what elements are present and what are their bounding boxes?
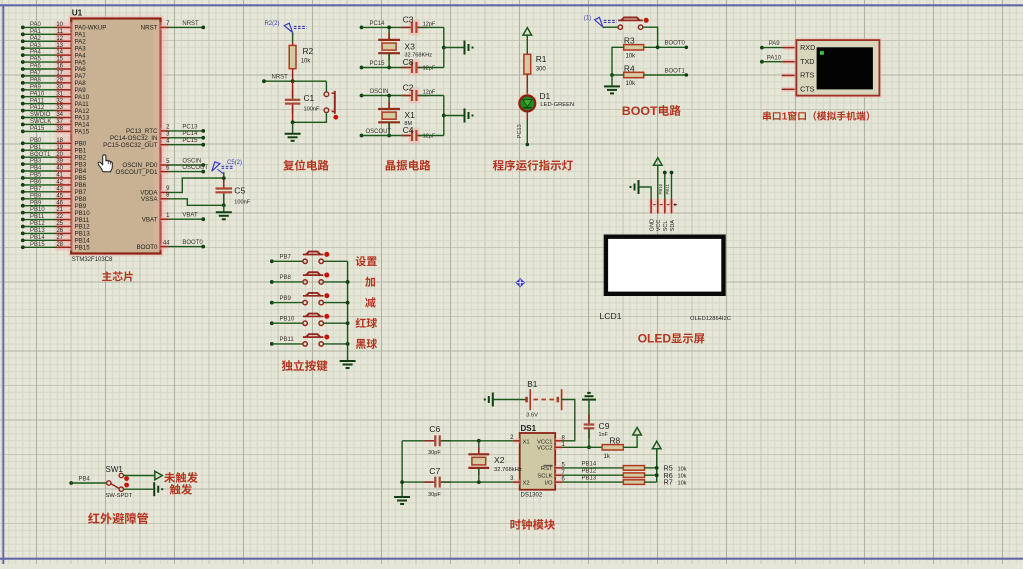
button PB7 [270, 252, 348, 264]
svg-text:OSCOUT: OSCOUT [182, 165, 208, 171]
power arrow [523, 28, 532, 55]
resistor R3 10k [624, 36, 644, 60]
svg-text:PC14: PC14 [182, 131, 198, 137]
pin 15 PA5 left wire [21, 57, 86, 67]
svg-text:PB8: PB8 [280, 275, 292, 281]
virtual terminal [782, 40, 880, 96]
svg-text:18: 18 [56, 138, 63, 144]
wire R2 bottom to NRST node [292, 69, 294, 82]
svg-text:(1): (1) [584, 15, 591, 21]
node OSCIN [360, 89, 410, 98]
svg-text:SW-SPDT: SW-SPDT [106, 493, 133, 499]
svg-text:NRST: NRST [182, 21, 199, 27]
svg-text:NRST: NRST [141, 25, 158, 32]
svg-text:PB9: PB9 [280, 296, 292, 302]
svg-text:PB12: PB12 [582, 469, 597, 475]
svg-text:300: 300 [536, 66, 547, 72]
svg-text:27: 27 [56, 235, 63, 241]
svg-text:PB7: PB7 [30, 186, 42, 192]
svg-text:SW1: SW1 [106, 465, 124, 474]
svg-text:BOOT0: BOOT0 [137, 244, 159, 251]
svg-text:PA9: PA9 [769, 41, 781, 47]
LED D1 LED-GREEN [519, 91, 574, 111]
svg-text:10k: 10k [626, 53, 637, 59]
svg-text:26: 26 [56, 228, 63, 234]
pin 31 PA10 left wire [21, 91, 90, 101]
marker (1) [584, 15, 617, 27]
pin 28 PB15 left wire [21, 242, 90, 252]
svg-text:10k: 10k [678, 466, 687, 472]
svg-text:RST: RST [541, 466, 553, 472]
svg-text:14: 14 [56, 50, 63, 56]
resistor R6 10k [623, 471, 686, 480]
pin 2 PC13 [126, 124, 205, 135]
svg-text:100nF: 100nF [304, 107, 320, 113]
svg-text:PA2: PA2 [30, 36, 42, 42]
svg-text:X3: X3 [404, 42, 415, 52]
svg-text:30pF: 30pF [428, 450, 441, 456]
svg-text:PB1: PB1 [30, 145, 42, 151]
label 时钟模块 [510, 519, 555, 530]
svg-text:C5: C5 [234, 185, 245, 195]
svg-text:RXD: RXD [800, 43, 815, 52]
ground for X3 caps [442, 27, 473, 67]
svg-text:1k: 1k [604, 454, 611, 460]
wire R4 right BOOT1 [644, 68, 688, 76]
svg-text:X2: X2 [523, 480, 530, 486]
svg-text:VSSA: VSSA [141, 196, 158, 203]
svg-text:PB6: PB6 [30, 179, 42, 185]
svg-text:PB3: PB3 [30, 159, 42, 165]
svg-text:PA15: PA15 [75, 129, 90, 136]
svg-text:PB10: PB10 [658, 183, 663, 194]
capacitor C2 12pF [401, 82, 444, 103]
ground for X1 caps [442, 96, 473, 136]
svg-text:PB7: PB7 [280, 255, 292, 261]
svg-text:PB4: PB4 [79, 476, 91, 482]
pin 4 PC15 [103, 138, 205, 149]
svg-text:X2: X2 [494, 455, 505, 465]
svg-text:SWCLK: SWCLK [30, 119, 51, 125]
svg-text:C4: C4 [403, 125, 414, 135]
wire SW1 bottom throw to ground [124, 482, 163, 496]
pin 8 VSSA [141, 193, 224, 206]
svg-text:16: 16 [56, 64, 63, 70]
label 减 [365, 297, 376, 307]
label 红外避障管 [88, 513, 148, 525]
mouse cursor [98, 155, 112, 172]
wire to BOOT button [603, 26, 619, 28]
pin 25 PB12 left wire [21, 221, 90, 231]
svg-text:PA8: PA8 [30, 77, 42, 83]
svg-text:BOOT0: BOOT0 [665, 41, 686, 47]
svg-text:NRST: NRST [272, 75, 289, 81]
button PB11 [270, 334, 348, 346]
pin 44 BOOT0 [137, 240, 206, 251]
svg-text:BOOT: BOOT [622, 104, 658, 118]
pin 46 PB9 left wire [21, 200, 87, 210]
svg-text:C6: C6 [429, 424, 440, 434]
wire PB14 [562, 461, 623, 468]
pin 29 PA8 left wire [21, 77, 86, 87]
svg-text:19: 19 [56, 145, 63, 151]
svg-text:C3: C3 [403, 14, 414, 24]
power arrow pullups [652, 441, 661, 449]
svg-text:OSCOUT_PD1: OSCOUT_PD1 [116, 169, 159, 176]
pin 38 PA15 left wire [21, 126, 90, 136]
svg-text:40: 40 [56, 166, 63, 172]
svg-text:D1: D1 [540, 91, 551, 101]
svg-text:DS1: DS1 [521, 424, 537, 433]
svg-text:CTS: CTS [800, 85, 815, 94]
svg-text:SCLK: SCLK [537, 474, 552, 480]
svg-text:PA10: PA10 [30, 91, 45, 97]
pin 20 BOOT1 left wire [21, 152, 87, 162]
svg-text:PB13: PB13 [30, 228, 45, 234]
svg-text:R7: R7 [664, 478, 673, 487]
ground OLED [631, 180, 652, 205]
svg-text:VBAT: VBAT [182, 213, 198, 219]
svg-text:PC13: PC13 [182, 124, 198, 130]
svg-text:PB5: PB5 [30, 173, 42, 179]
svg-text:BOOT1: BOOT1 [30, 152, 51, 158]
svg-text:SWDIO: SWDIO [30, 112, 51, 118]
wire buttons common [346, 261, 350, 361]
pin 22 PB11 left wire [21, 214, 90, 224]
svg-text:PC15: PC15 [182, 138, 198, 144]
crystal X1 8M [378, 94, 415, 138]
svg-text:1: 1 [782, 112, 788, 123]
svg-text:GND: GND [649, 219, 655, 231]
label 加 [365, 277, 375, 287]
svg-text:PC14: PC14 [370, 21, 386, 27]
ground buttons [340, 361, 356, 368]
svg-text:41: 41 [56, 173, 63, 179]
svg-text:VCC1: VCC1 [537, 440, 552, 446]
wire button bottom to C1 [293, 113, 327, 123]
label 晶振电路 [386, 160, 431, 171]
pin 7 NRST right [141, 21, 205, 32]
origin marker [515, 278, 525, 288]
pin 30 PA9 left wire [21, 84, 86, 94]
svg-text:PB15: PB15 [30, 242, 45, 248]
svg-text:R2(2): R2(2) [265, 21, 280, 27]
svg-text:PB11: PB11 [280, 337, 295, 343]
wire to reset button [325, 81, 327, 92]
svg-text:STM32F103C8: STM32F103C8 [72, 257, 113, 263]
pin 41 PB5 left wire [21, 173, 87, 183]
svg-text:PB11: PB11 [30, 214, 45, 220]
pin 1 VBAT [142, 213, 205, 224]
svg-text:32: 32 [56, 98, 63, 104]
svg-text:PA5: PA5 [30, 57, 42, 63]
capacitor C6 30pF [402, 424, 513, 456]
OLED pins [649, 199, 677, 232]
svg-text:PA12: PA12 [30, 105, 45, 111]
svg-text:PB14: PB14 [582, 461, 597, 467]
switch SW1 SW-SPDT [106, 465, 133, 499]
svg-text:PB12: PB12 [30, 221, 45, 227]
svg-text:22: 22 [56, 214, 63, 220]
button PB8 [270, 272, 348, 284]
ground clock left [394, 497, 410, 504]
svg-text:OSCOUT: OSCOUT [366, 129, 392, 135]
wire SDA [670, 171, 674, 205]
node PA10 [760, 55, 784, 63]
svg-text:R3: R3 [624, 36, 635, 46]
pin 5 OSCIN [122, 158, 205, 169]
svg-text:44: 44 [163, 240, 170, 246]
svg-text:PA11: PA11 [30, 98, 44, 104]
wire SW1 top throw [124, 471, 163, 480]
svg-text:43: 43 [56, 186, 63, 192]
crystal X3 32.768KHz [378, 26, 432, 70]
battery B1 3.6V [526, 380, 561, 418]
pin 45 PB8 left wire [21, 193, 87, 203]
svg-text:15: 15 [56, 57, 63, 63]
pin 12 PA2 left wire [21, 36, 86, 46]
svg-text:C8: C8 [403, 57, 414, 67]
pin 21 PB10 left wire [21, 207, 90, 217]
svg-text:12pF: 12pF [423, 90, 436, 96]
svg-text:VBAT: VBAT [142, 216, 158, 223]
svg-text:11: 11 [57, 29, 64, 35]
svg-text:29: 29 [56, 77, 63, 83]
svg-text:X1: X1 [404, 110, 415, 120]
svg-text:32.768kHz: 32.768kHz [494, 467, 522, 473]
capacitor C1 100nF [285, 81, 320, 124]
svg-text:38: 38 [56, 126, 63, 132]
capacitor C7 30pF [402, 466, 513, 498]
marker R2(2) [265, 21, 307, 32]
svg-text:C1: C1 [304, 93, 315, 103]
svg-text:PA0: PA0 [30, 22, 42, 28]
BOOT button [618, 18, 649, 30]
node OSCOUT [360, 129, 410, 138]
svg-text:17: 17 [56, 71, 63, 77]
label 串口1窗口（模拟手机端） [763, 111, 869, 122]
svg-text:PB4: PB4 [30, 166, 42, 172]
svg-text:PB10: PB10 [280, 316, 295, 322]
svg-text:10k: 10k [678, 474, 687, 480]
svg-text:B1: B1 [527, 380, 537, 389]
svg-text:100nF: 100nF [234, 199, 250, 205]
svg-text:PB13: PB13 [582, 476, 597, 482]
svg-text:PA4: PA4 [30, 50, 42, 56]
ground battery left [485, 393, 526, 407]
svg-text:PB9: PB9 [30, 200, 42, 206]
svg-text:PA15: PA15 [30, 126, 45, 132]
svg-text:PA3: PA3 [30, 43, 42, 49]
pin 27 PB14 left wire [21, 235, 90, 245]
svg-text:BOOT0: BOOT0 [182, 240, 203, 246]
svg-text:OLED: OLED [638, 332, 672, 346]
svg-text:10: 10 [56, 22, 63, 28]
svg-text:3.6V: 3.6V [526, 412, 538, 418]
svg-text:R1: R1 [536, 54, 547, 64]
svg-text:PC15-OSC32_OUT: PC15-OSC32_OUT [103, 142, 158, 149]
svg-text:33: 33 [56, 105, 63, 111]
label OLED显示屏 [638, 332, 705, 346]
LCD1 OLED display body [600, 237, 731, 322]
wire VCC2 to R8 [562, 446, 602, 448]
node PC14 [360, 21, 410, 30]
button PB9 [270, 293, 348, 305]
svg-text:42: 42 [56, 179, 63, 185]
capacitor C3 12pF [401, 14, 444, 35]
label 黑球 [356, 339, 377, 349]
capacitor C9 1nF [584, 414, 610, 449]
wire battery to VCC1 [562, 400, 575, 441]
svg-text:13: 13 [56, 43, 63, 49]
svg-text:PC13: PC13 [517, 124, 523, 138]
resistor R8 1k [602, 436, 623, 460]
svg-text:12: 12 [56, 36, 63, 42]
svg-text:BOOT1: BOOT1 [665, 68, 686, 74]
svg-text:PB15: PB15 [75, 244, 91, 251]
svg-text:TXD: TXD [800, 57, 814, 66]
pin 14 PA4 left wire [21, 50, 86, 60]
svg-text:C2: C2 [403, 82, 414, 92]
wire C6 C7 left vertical [400, 441, 404, 497]
wire pullup common [655, 449, 659, 482]
button PB10 [270, 314, 348, 326]
pin 18 PB0 left wire [21, 138, 87, 148]
reset button [324, 91, 338, 120]
pin 6 OSCOUT [116, 165, 209, 176]
svg-text:PB0: PB0 [30, 138, 42, 144]
pin 16 PA6 left wire [21, 64, 86, 74]
pin 43 PB7 left wire [21, 186, 87, 196]
node PC15 [360, 61, 410, 70]
pin 33 PA12 left wire [21, 105, 90, 115]
chip U1 STM32F103C8 [55, 8, 167, 262]
ground under C1 [285, 122, 301, 141]
svg-text:12pF: 12pF [423, 66, 436, 72]
svg-text:I/O: I/O [545, 480, 553, 486]
svg-text:39: 39 [56, 159, 63, 165]
svg-text:PA9: PA9 [30, 84, 42, 90]
svg-text:28: 28 [56, 242, 63, 248]
pin 39 PB3 left wire [21, 159, 87, 169]
svg-text:PA10: PA10 [767, 55, 782, 61]
svg-text:LCD1: LCD1 [600, 311, 622, 321]
pin 13 PA3 left wire [21, 43, 86, 53]
ground BOOT [604, 75, 620, 93]
pin 9 VDDA [140, 178, 224, 197]
label 红球 [356, 318, 378, 328]
pin 17 PA7 left wire [21, 71, 86, 81]
crystal X2 32.768kHz [468, 441, 521, 482]
svg-text:20: 20 [56, 152, 63, 158]
svg-text:VCC: VCC [656, 220, 662, 232]
pin 34 SWDIO left wire [21, 112, 90, 122]
svg-text:37: 37 [56, 119, 63, 125]
label 触发 [170, 484, 192, 495]
resistor R7 10k [623, 478, 686, 487]
svg-text:45: 45 [56, 193, 63, 199]
wire R3 right BOOT0 [644, 41, 688, 49]
power arrow OLED VCC [654, 158, 663, 205]
svg-text:10k: 10k [626, 81, 637, 87]
svg-text:DS1302: DS1302 [521, 493, 543, 499]
pin 37 SWCLK left wire [21, 119, 90, 129]
node PB4 [69, 476, 106, 485]
svg-text:OLED12864I2C: OLED12864I2C [690, 316, 731, 322]
svg-text:PA7: PA7 [30, 71, 42, 77]
svg-text:R2: R2 [303, 46, 314, 56]
svg-text:1nF: 1nF [599, 432, 609, 438]
svg-text:12pF: 12pF [423, 134, 436, 140]
svg-text:VCC2: VCC2 [537, 446, 552, 452]
chip DS1 DS1302 [510, 424, 565, 499]
svg-text:PA6: PA6 [30, 64, 42, 70]
marker C5(2) [212, 160, 242, 174]
node PA9 [760, 41, 784, 49]
pin 26 PB13 left wire [21, 228, 90, 238]
svg-text:OSCIN: OSCIN [370, 89, 389, 95]
svg-text:SDA: SDA [670, 220, 676, 232]
label BOOT电路 [622, 104, 681, 118]
svg-text:R8: R8 [610, 436, 621, 446]
pin 42 PB6 left wire [21, 179, 87, 189]
svg-text:PA1: PA1 [30, 29, 42, 35]
svg-text:30: 30 [56, 84, 63, 90]
svg-text:34: 34 [56, 112, 63, 118]
svg-text:LED-GREEN: LED-GREEN [540, 102, 574, 108]
svg-text:C5(2): C5(2) [227, 160, 242, 166]
svg-text:30pF: 30pF [428, 492, 441, 498]
pin 19 PB1 left wire [21, 145, 87, 155]
wire R3 left to R4 [610, 47, 624, 77]
pin 32 PA11 left wire [21, 98, 89, 108]
svg-text:PB10: PB10 [30, 207, 45, 213]
pin 3 PC14 [110, 131, 205, 142]
net labels rotated [658, 183, 670, 194]
pin 10 PA0 left wire [21, 22, 106, 32]
wire PB13 [562, 476, 623, 483]
node NRST [262, 75, 326, 84]
resistor R1 300 [524, 54, 547, 74]
label 设置 [356, 256, 377, 266]
label 复位电路 [283, 160, 329, 171]
pin 11 PA1 left wire [21, 29, 86, 39]
svg-text:21: 21 [56, 207, 63, 213]
svg-text:R4: R4 [624, 63, 635, 73]
wire R1 to D1 [526, 74, 528, 96]
capacitor C8 12pF [401, 57, 444, 76]
resistor R5 10k [623, 464, 686, 473]
svg-text:31: 31 [56, 91, 63, 97]
svg-text:SCL: SCL [663, 221, 669, 232]
svg-text:46: 46 [56, 200, 63, 206]
capacitor C5 100nF [216, 172, 251, 207]
svg-text:RTS: RTS [800, 71, 814, 80]
label 程序运行指示灯 [493, 160, 573, 171]
pin 40 PB4 left wire [21, 166, 87, 176]
resistor R2 10k [289, 33, 313, 68]
svg-text:C7: C7 [429, 466, 440, 476]
wire button to BOOT0 node [643, 27, 658, 47]
wire R8 to power [623, 428, 641, 448]
label 独立按键 [282, 360, 328, 371]
svg-text:U1: U1 [72, 8, 83, 17]
wire SCL [663, 171, 667, 205]
resistor R4 10k [612, 63, 644, 87]
ground above C9 [582, 393, 596, 422]
svg-text:PC15: PC15 [370, 61, 386, 67]
svg-text:OSCIN: OSCIN [182, 158, 201, 164]
